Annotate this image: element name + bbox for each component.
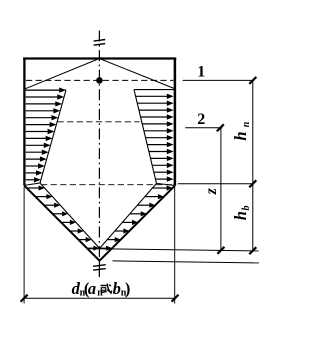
svg-text:n: n xyxy=(97,288,103,299)
svg-text:z: z xyxy=(203,188,220,195)
svg-text:): ) xyxy=(125,279,130,298)
svg-text:b: b xyxy=(113,279,121,298)
svg-text:2: 2 xyxy=(197,111,205,128)
svg-text:1: 1 xyxy=(197,63,205,80)
svg-text:a: a xyxy=(88,279,96,298)
